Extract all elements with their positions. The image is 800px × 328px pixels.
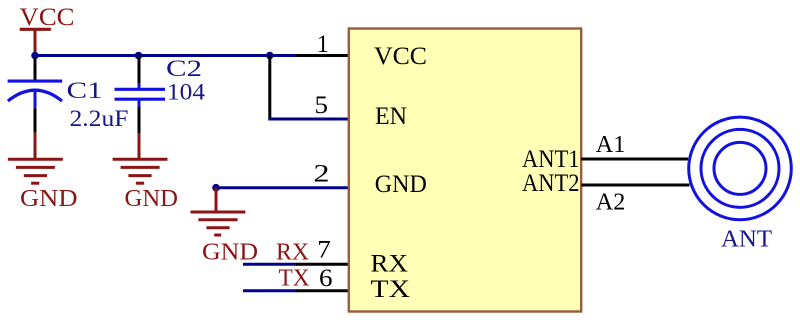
ground GND2 bars <box>113 159 168 183</box>
svg-text:VCC: VCC <box>20 4 75 31</box>
wire A1 <box>581 158 688 161</box>
svg-text:ANT1: ANT1 <box>522 146 580 173</box>
wire TX <box>243 289 297 292</box>
wire EN pin5 <box>268 118 349 121</box>
ground GND1 bars <box>8 159 63 183</box>
svg-text:VCC: VCC <box>374 43 427 70</box>
wire pin1 segment <box>270 54 297 57</box>
svg-text:1: 1 <box>317 31 329 58</box>
antenna ANT inner circle <box>714 142 766 194</box>
capacitor C1 pin top <box>34 57 37 80</box>
pin 7 line <box>296 263 350 266</box>
antenna ANT outer circle <box>689 117 792 220</box>
svg-text:2: 2 <box>314 160 330 187</box>
svg-text:C2: C2 <box>166 56 202 81</box>
ground GND3 bars <box>191 212 246 235</box>
power VCC stem <box>34 29 37 55</box>
IC U1 body <box>349 29 581 312</box>
svg-text:7: 7 <box>317 236 331 263</box>
capacitor C1 top plate <box>8 80 63 83</box>
svg-text:RX: RX <box>371 251 409 278</box>
antenna ANT middle circle <box>701 129 779 207</box>
svg-text:ANT: ANT <box>721 226 772 252</box>
svg-text:104: 104 <box>167 80 206 105</box>
svg-text:A2: A2 <box>596 190 626 216</box>
svg-text:6: 6 <box>319 265 333 292</box>
wire top rail <box>35 54 270 57</box>
capacitor C2 top plate <box>115 88 166 91</box>
svg-text:2.2uF: 2.2uF <box>70 106 129 131</box>
capacitor C2 pin top <box>138 56 141 83</box>
junction at GND net <box>212 184 220 192</box>
wire RX <box>243 263 297 266</box>
pin 6 line <box>296 289 350 292</box>
wire GND pin2 <box>216 186 349 189</box>
wire A2 <box>581 184 689 187</box>
svg-text:GND: GND <box>125 186 179 212</box>
capacitor C2 pin bottom <box>138 100 141 107</box>
pin 1 line <box>296 54 350 57</box>
svg-text:GND: GND <box>20 186 78 212</box>
power VCC bar <box>20 28 51 31</box>
capacitor C1 pin bottom <box>34 90 37 108</box>
svg-text:GND: GND <box>202 239 258 265</box>
svg-text:RX: RX <box>276 239 309 265</box>
svg-text:5: 5 <box>315 92 329 119</box>
wire vertical to EN <box>268 56 271 120</box>
ground GND2 stem <box>138 133 141 158</box>
svg-text:GND: GND <box>375 171 427 198</box>
junction at pin1 <box>266 52 274 60</box>
svg-text:ANT2: ANT2 <box>522 170 580 197</box>
ground GND3 stem <box>215 188 218 211</box>
junction at C2 <box>135 52 143 60</box>
svg-text:A1: A1 <box>596 132 626 158</box>
svg-text:TX: TX <box>371 276 411 303</box>
capacitor C1 arc plate <box>8 90 62 101</box>
svg-text:EN: EN <box>375 103 407 130</box>
svg-text:TX: TX <box>279 266 310 292</box>
junction at VCC <box>31 52 39 60</box>
capacitor C2 bottom plate <box>115 98 166 101</box>
svg-text:C1: C1 <box>67 78 103 103</box>
ground GND1 stem <box>34 133 37 158</box>
